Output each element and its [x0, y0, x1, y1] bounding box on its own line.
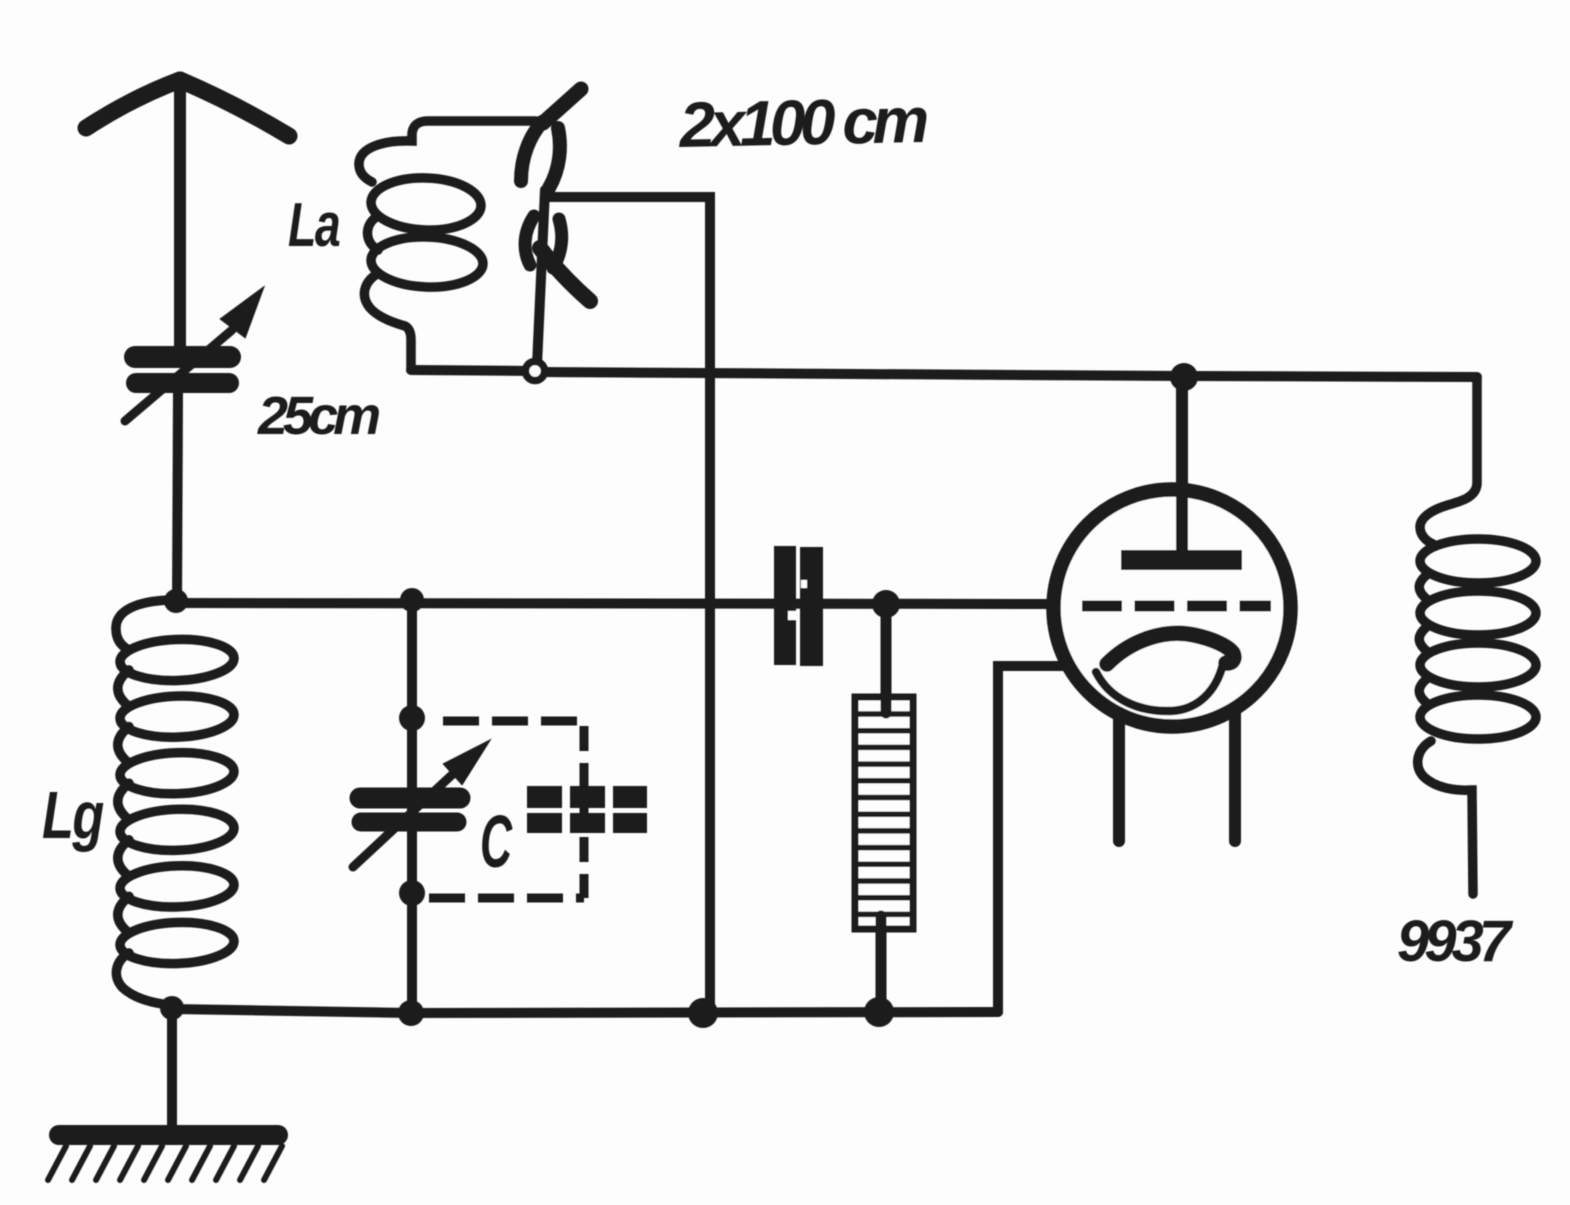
svg-text:2x100 cm: 2x100 cm — [678, 84, 928, 161]
svg-text:Lg: Lg — [42, 778, 104, 853]
svg-text:La: La — [288, 189, 340, 259]
svg-text:9937: 9937 — [1397, 909, 1514, 974]
svg-text:C: C — [480, 800, 513, 882]
svg-text:25cm: 25cm — [257, 386, 379, 446]
